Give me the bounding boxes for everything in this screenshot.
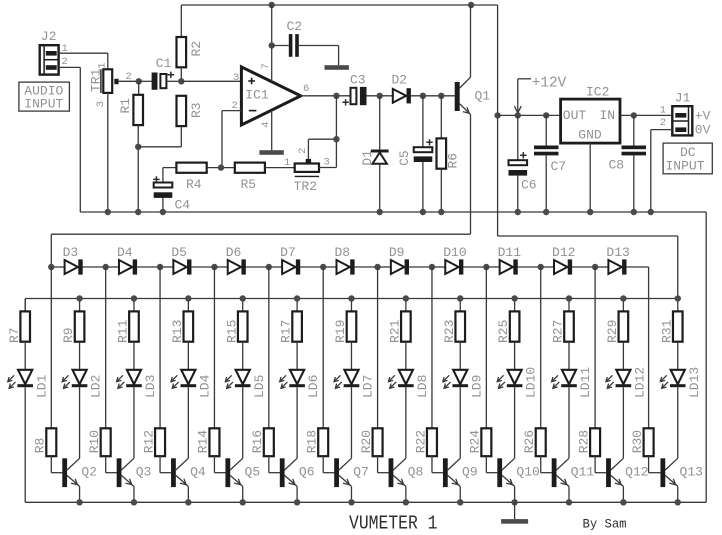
svg-text:D12: D12 xyxy=(552,245,575,260)
junction bus C6 xyxy=(515,209,521,215)
wire R14 to base xyxy=(214,456,225,473)
svg-text:TR2: TR2 xyxy=(294,179,317,194)
svg-text:Q9: Q9 xyxy=(462,465,478,480)
trimmer TR2 xyxy=(294,159,319,194)
svg-text:GND: GND xyxy=(578,127,602,142)
svg-text:3: 3 xyxy=(233,72,239,84)
node diode row 11 xyxy=(592,264,598,270)
node diode row 7 xyxy=(374,264,380,270)
junction bottom rail Q8 xyxy=(403,499,409,505)
trimmer TR1 xyxy=(88,68,118,93)
pin 2 label J2 xyxy=(62,56,68,68)
wire TR2 wiper up xyxy=(308,139,336,159)
svg-text:D8: D8 xyxy=(335,245,351,260)
LED LD11 xyxy=(552,367,594,398)
capacitor C3 xyxy=(342,72,366,105)
diode D6 xyxy=(214,245,245,275)
wire IC2 IN to J1 xyxy=(620,114,672,116)
resistor R7 xyxy=(7,299,30,344)
wire R18 to base xyxy=(323,456,334,473)
svg-text:C4: C4 xyxy=(175,198,191,213)
junction R2/R3/C1 node xyxy=(178,78,184,84)
wire LED resistor rail xyxy=(25,299,678,312)
svg-text:R7: R7 xyxy=(7,327,22,343)
junction R1/R3 node xyxy=(135,144,141,150)
diode D10 xyxy=(432,245,467,275)
svg-text:R21: R21 xyxy=(387,319,402,343)
svg-text:R6: R6 xyxy=(446,153,461,169)
resistor R20 xyxy=(359,267,383,456)
pin 1 label J2 xyxy=(62,43,68,55)
wire R17 to LED xyxy=(296,342,298,370)
wire R5 to TR2 xyxy=(265,167,295,169)
junction output/TR2 node xyxy=(333,93,339,99)
LED LD3 xyxy=(117,370,159,398)
svg-text:LD13: LD13 xyxy=(687,367,702,398)
wire Q10 emitter xyxy=(514,486,516,502)
junction rail R15 xyxy=(240,295,246,301)
pin 2 label TR1 wiper xyxy=(126,71,132,83)
svg-text:C5: C5 xyxy=(397,150,412,166)
svg-text:LD6: LD6 xyxy=(306,375,321,398)
pin 1 label TR1 xyxy=(97,62,109,68)
junction bottom rail Q7 xyxy=(348,499,354,505)
svg-text:R15: R15 xyxy=(224,320,239,343)
resistor R27 xyxy=(551,299,574,344)
svg-text:6: 6 xyxy=(303,83,309,95)
junction bus IC2 GND xyxy=(587,209,593,215)
wire Q8 emitter xyxy=(405,486,407,502)
resistor R31 xyxy=(659,299,682,344)
transistor Q7 xyxy=(334,458,369,487)
LED LD5 xyxy=(225,370,267,398)
wire C1 right lead xyxy=(167,80,182,82)
transistor Q12 xyxy=(606,458,649,487)
node diode row 3 xyxy=(157,264,163,270)
diode D9 xyxy=(378,245,409,275)
svg-text:C2: C2 xyxy=(287,19,303,34)
resistor R17 xyxy=(279,299,302,344)
junction bottom rail Q2 xyxy=(76,499,82,505)
svg-text:R16: R16 xyxy=(250,430,265,453)
wire J1 pin2 down xyxy=(651,130,673,212)
svg-text:R11: R11 xyxy=(116,319,131,343)
svg-text:Q6: Q6 xyxy=(299,465,315,480)
ground C2 xyxy=(325,65,349,70)
resistor R14 xyxy=(196,267,220,456)
wire R19 to LED xyxy=(350,342,352,370)
node diode row 6 xyxy=(320,264,326,270)
wire R27 to LED xyxy=(568,342,570,370)
svg-text:2: 2 xyxy=(62,56,68,68)
wire Q13 emitter xyxy=(677,486,679,502)
resistor R2 xyxy=(177,37,204,67)
LED LD7 xyxy=(334,370,376,398)
wire Q11 emitter xyxy=(568,486,570,502)
node diode row 1 xyxy=(48,264,54,270)
svg-text:IN: IN xyxy=(600,108,616,123)
LED LD1 xyxy=(8,370,50,398)
wire Q1 emitter down xyxy=(470,114,472,234)
svg-text:D7: D7 xyxy=(280,245,296,260)
svg-text:R29: R29 xyxy=(605,320,620,343)
resistor R23 xyxy=(442,299,465,344)
svg-text:R28: R28 xyxy=(576,430,591,453)
diode D1 xyxy=(360,96,389,212)
svg-text:2: 2 xyxy=(660,117,666,129)
svg-text:Q4: Q4 xyxy=(190,465,206,480)
wire R31 to LED xyxy=(677,342,679,370)
label By Sam xyxy=(583,517,627,532)
resistor R12 xyxy=(141,267,165,456)
resistor R1 xyxy=(118,81,143,125)
wire R24 to base xyxy=(486,456,497,473)
junction rail R11 xyxy=(131,295,137,301)
wire R12 to base xyxy=(160,456,171,473)
diode D5 xyxy=(160,245,191,275)
junction rail R9 xyxy=(76,295,82,301)
wire C2 right lead xyxy=(299,46,339,66)
connector J2 xyxy=(40,29,59,75)
svg-text:C6: C6 xyxy=(521,178,537,193)
svg-text:2: 2 xyxy=(297,148,309,154)
label +V xyxy=(695,109,711,124)
svg-text:3: 3 xyxy=(324,156,330,168)
resistor R4 xyxy=(176,163,206,192)
pin 1 label TR2 xyxy=(284,157,290,169)
svg-text:Q5: Q5 xyxy=(245,465,261,480)
svg-text:VUMETER 1: VUMETER 1 xyxy=(349,513,438,535)
pin 1 label J1 xyxy=(660,104,666,116)
svg-text:Q11: Q11 xyxy=(571,465,595,480)
LED LD4 xyxy=(171,370,213,398)
svg-text:R20: R20 xyxy=(359,430,374,453)
junction C5 tap xyxy=(420,93,426,99)
LED LD6 xyxy=(280,370,322,398)
capacitor C5 xyxy=(397,96,433,212)
svg-text:By Sam: By Sam xyxy=(583,517,627,532)
svg-text:D4: D4 xyxy=(117,245,133,260)
wire R10 to base xyxy=(106,456,117,473)
transistor Q5 xyxy=(225,458,260,487)
svg-text:LD12: LD12 xyxy=(632,367,647,398)
svg-text:LD11: LD11 xyxy=(578,367,593,398)
svg-text:D9: D9 xyxy=(389,245,405,260)
svg-text:INPUT: INPUT xyxy=(666,159,705,174)
wire R3 bottom lead xyxy=(138,126,181,147)
pin 3 label TR1 xyxy=(95,101,107,107)
svg-text:+12V: +12V xyxy=(532,74,567,91)
wire LD11 cathode down xyxy=(568,387,570,458)
wire LD3 cathode down xyxy=(133,387,135,458)
wire R1 bottom to bus xyxy=(137,125,139,212)
diode D2 xyxy=(392,72,411,103)
wire +12V to LED rail xyxy=(498,236,678,299)
wire R9 to LED xyxy=(79,342,81,370)
wire C3 to D2 xyxy=(367,95,393,97)
wire TR1 pin3 down xyxy=(107,93,109,212)
svg-text:1: 1 xyxy=(284,157,290,169)
resistor R21 xyxy=(387,299,410,344)
svg-text:R24: R24 xyxy=(468,430,483,454)
svg-text:Q10: Q10 xyxy=(516,465,539,480)
resistor R29 xyxy=(605,299,628,344)
pin 6 label IC1 xyxy=(303,83,309,95)
svg-text:D3: D3 xyxy=(63,245,79,260)
svg-text:3: 3 xyxy=(95,101,107,107)
svg-text:J2: J2 xyxy=(41,29,57,44)
svg-text:2: 2 xyxy=(126,71,132,83)
junction rail R23 xyxy=(457,295,463,301)
junction bus D1 xyxy=(377,209,383,215)
ground bottom xyxy=(501,502,528,523)
wire D8 cathode xyxy=(354,266,377,268)
svg-text:D6: D6 xyxy=(226,245,242,260)
junction R4/R5 node xyxy=(218,164,224,170)
svg-text:INPUT: INPUT xyxy=(24,97,63,112)
wire R2 top lead xyxy=(180,5,182,37)
wire Q12 emitter xyxy=(622,486,624,502)
op-amp IC1 xyxy=(241,67,300,125)
svg-text:4: 4 xyxy=(260,121,272,127)
wire R15 to LED xyxy=(242,342,244,370)
svg-text:R13: R13 xyxy=(170,320,185,343)
svg-text:J1: J1 xyxy=(675,91,691,106)
junction top rail / Q1 collector xyxy=(468,2,474,8)
wire D12 cathode xyxy=(572,266,595,268)
wire LD1 cathode to rail xyxy=(25,387,706,502)
wire Q6 emitter xyxy=(296,486,298,502)
wire bus right side down xyxy=(705,212,707,502)
wire OUT rail xyxy=(498,114,561,116)
resistor R24 xyxy=(468,267,492,456)
junction bottom rail Q10 xyxy=(511,499,517,505)
svg-text:R25: R25 xyxy=(496,320,511,343)
junction bottom rail Q13 xyxy=(675,499,681,505)
svg-text:LD7: LD7 xyxy=(361,375,376,398)
junction rail R27 xyxy=(566,295,572,301)
capacitor C6 xyxy=(509,115,537,212)
junction C8 tap xyxy=(631,112,637,118)
svg-text:LD5: LD5 xyxy=(252,375,267,398)
svg-text:7: 7 xyxy=(260,63,272,69)
svg-text:LD9: LD9 xyxy=(469,375,484,398)
junction TR2 feedback node xyxy=(333,136,339,142)
svg-text:D2: D2 xyxy=(392,72,408,87)
wire LD6 cathode down xyxy=(296,387,298,458)
transistor Q1 xyxy=(455,5,491,114)
junction bus C7 xyxy=(543,209,549,215)
svg-text:Q1: Q1 xyxy=(475,89,491,104)
svg-text:R1: R1 xyxy=(118,98,133,114)
wire D13 cathode jog xyxy=(626,267,649,428)
junction bottom rail Q9 xyxy=(457,499,463,505)
capacitor C1 xyxy=(152,56,174,90)
pin 3 label TR2 xyxy=(324,156,330,168)
pin 2 label IC1 xyxy=(232,100,238,112)
svg-text:LD2: LD2 xyxy=(89,375,104,398)
label AUDIO INPUT box xyxy=(19,82,70,111)
junction rail R19 xyxy=(348,295,354,301)
svg-text:R19: R19 xyxy=(333,320,348,343)
label 0V xyxy=(695,123,711,138)
wire LD13 cathode down xyxy=(677,387,679,458)
LED LD9 xyxy=(443,370,485,398)
wire IC1 pin2 xyxy=(222,111,241,168)
capacitor C4 xyxy=(153,168,190,213)
junction rail R17 xyxy=(294,295,300,301)
svg-text:D10: D10 xyxy=(443,245,466,260)
wire D4 cathode xyxy=(137,266,160,268)
wire R8 to base xyxy=(51,456,62,473)
junction bottom rail Q11 xyxy=(566,499,572,505)
wire R16 to base xyxy=(269,456,280,473)
svg-text:Q2: Q2 xyxy=(81,465,97,480)
svg-text:Q13: Q13 xyxy=(680,465,703,480)
transistor Q9 xyxy=(443,458,478,487)
svg-text:LD1: LD1 xyxy=(34,374,49,398)
wire R7 to LED xyxy=(24,342,26,370)
connector J1 xyxy=(672,91,692,136)
svg-text:R22: R22 xyxy=(413,430,428,453)
svg-text:R31: R31 xyxy=(659,319,674,343)
wire R4 to R5 xyxy=(207,167,235,169)
node diode row 8 xyxy=(429,264,435,270)
wire LD5 cathode down xyxy=(242,387,244,458)
svg-text:R23: R23 xyxy=(442,320,457,343)
wire R2 bottom lead xyxy=(180,67,182,81)
transistor Q6 xyxy=(280,458,315,487)
wire D7 cathode xyxy=(300,266,323,268)
diode D7 xyxy=(269,245,300,275)
junction +12V arrow node xyxy=(515,112,521,118)
resistor R16 xyxy=(250,267,274,456)
svg-text:D1: D1 xyxy=(360,150,375,166)
wire C1 left lead xyxy=(139,80,152,82)
junction C2 tap xyxy=(269,42,275,48)
wire R13 to LED xyxy=(187,342,189,370)
resistor R22 xyxy=(413,267,437,456)
wire R21 to LED xyxy=(405,342,407,370)
wire J2 pin2 down xyxy=(59,67,81,212)
transistor Q11 xyxy=(552,458,595,487)
pin 3 label IC1 xyxy=(233,72,239,84)
svg-text:R27: R27 xyxy=(551,320,566,343)
wire TR2 pin3 xyxy=(319,96,336,168)
capacitor C7 xyxy=(534,115,566,212)
wire D6 cathode xyxy=(245,266,268,268)
svg-text:R14: R14 xyxy=(196,430,211,454)
transistor Q10 xyxy=(497,458,540,487)
wire R22 to base xyxy=(432,456,443,473)
ground IC1 pin4 xyxy=(259,150,283,155)
junction bus C8 xyxy=(631,209,637,215)
svg-text:LD10: LD10 xyxy=(524,367,539,398)
svg-text:R26: R26 xyxy=(522,430,537,453)
wire LD10 cathode down xyxy=(514,387,516,458)
label DC INPUT box xyxy=(663,143,712,174)
junction OUT rail xyxy=(494,112,500,118)
wire R23 to LED xyxy=(459,342,461,370)
regulator IC2 xyxy=(561,84,620,143)
svg-text:Q8: Q8 xyxy=(408,465,424,480)
pin 2 label TR2 xyxy=(297,148,309,154)
svg-text:C7: C7 xyxy=(551,159,567,174)
wire D9 cathode xyxy=(409,266,432,268)
svg-text:OUT: OUT xyxy=(563,108,587,123)
svg-text:C1: C1 xyxy=(156,56,172,71)
node diode row 10 xyxy=(538,264,544,270)
svg-text:Q7: Q7 xyxy=(353,465,369,480)
svg-text:IC1: IC1 xyxy=(245,88,269,103)
diode D8 xyxy=(323,245,354,275)
junction rail R29 xyxy=(620,295,626,301)
svg-text:R18: R18 xyxy=(305,430,320,453)
LED LD2 xyxy=(62,370,104,398)
svg-text:R17: R17 xyxy=(279,320,294,343)
wire R11 to LED xyxy=(133,342,135,370)
svg-text:R12: R12 xyxy=(141,430,156,453)
svg-text:R4: R4 xyxy=(186,177,202,192)
wire LD4 cathode down xyxy=(187,387,189,458)
wire IC2 GND down xyxy=(589,143,591,212)
capacitor C2 xyxy=(287,19,303,57)
resistor R25 xyxy=(496,299,519,344)
resistor R5 xyxy=(235,163,265,192)
node diode row 2 xyxy=(102,264,108,270)
diode D12 xyxy=(541,245,576,275)
wire R20 to base xyxy=(378,456,389,473)
LED LD12 xyxy=(606,367,648,398)
wire IC1 output xyxy=(301,95,351,97)
node diode row 9 xyxy=(483,264,489,270)
node diode row 4 xyxy=(211,264,217,270)
resistor R9 xyxy=(61,299,84,344)
wire D10 cathode xyxy=(463,266,486,268)
junction rail R13 xyxy=(185,295,191,301)
svg-text:R10: R10 xyxy=(87,430,102,453)
wire Q3 emitter xyxy=(133,486,135,502)
LED LD8 xyxy=(388,370,430,398)
resistor R15 xyxy=(224,299,247,344)
junction R1 top xyxy=(136,78,142,84)
wire +12V feed down xyxy=(497,5,499,236)
transistor Q4 xyxy=(171,458,206,487)
svg-text:R8: R8 xyxy=(33,438,48,454)
svg-text:1: 1 xyxy=(660,104,666,116)
resistor R11 xyxy=(116,299,139,344)
svg-text:D13: D13 xyxy=(606,245,629,260)
wire Q9 emitter xyxy=(459,486,461,502)
wire Q7 emitter xyxy=(350,486,352,502)
resistor R10 xyxy=(87,267,111,456)
svg-text:R3: R3 xyxy=(189,102,204,118)
svg-text:Q3: Q3 xyxy=(136,465,152,480)
junction C7 tap xyxy=(543,112,549,118)
svg-text:D5: D5 xyxy=(171,245,187,260)
wire IC1 pin7 xyxy=(271,5,273,82)
svg-text:R9: R9 xyxy=(61,327,76,343)
wire LD8 cathode down xyxy=(405,387,407,458)
wire ground bus xyxy=(80,211,706,213)
junction bus TR1 xyxy=(105,209,111,215)
svg-text:IC2: IC2 xyxy=(586,84,609,99)
resistor R19 xyxy=(333,299,356,344)
pin 7 label IC1 xyxy=(260,63,272,69)
junction bus J1 pin2 xyxy=(648,209,654,215)
svg-text:D11: D11 xyxy=(498,245,522,260)
junction top rail / IC1 pin7 xyxy=(269,2,275,8)
